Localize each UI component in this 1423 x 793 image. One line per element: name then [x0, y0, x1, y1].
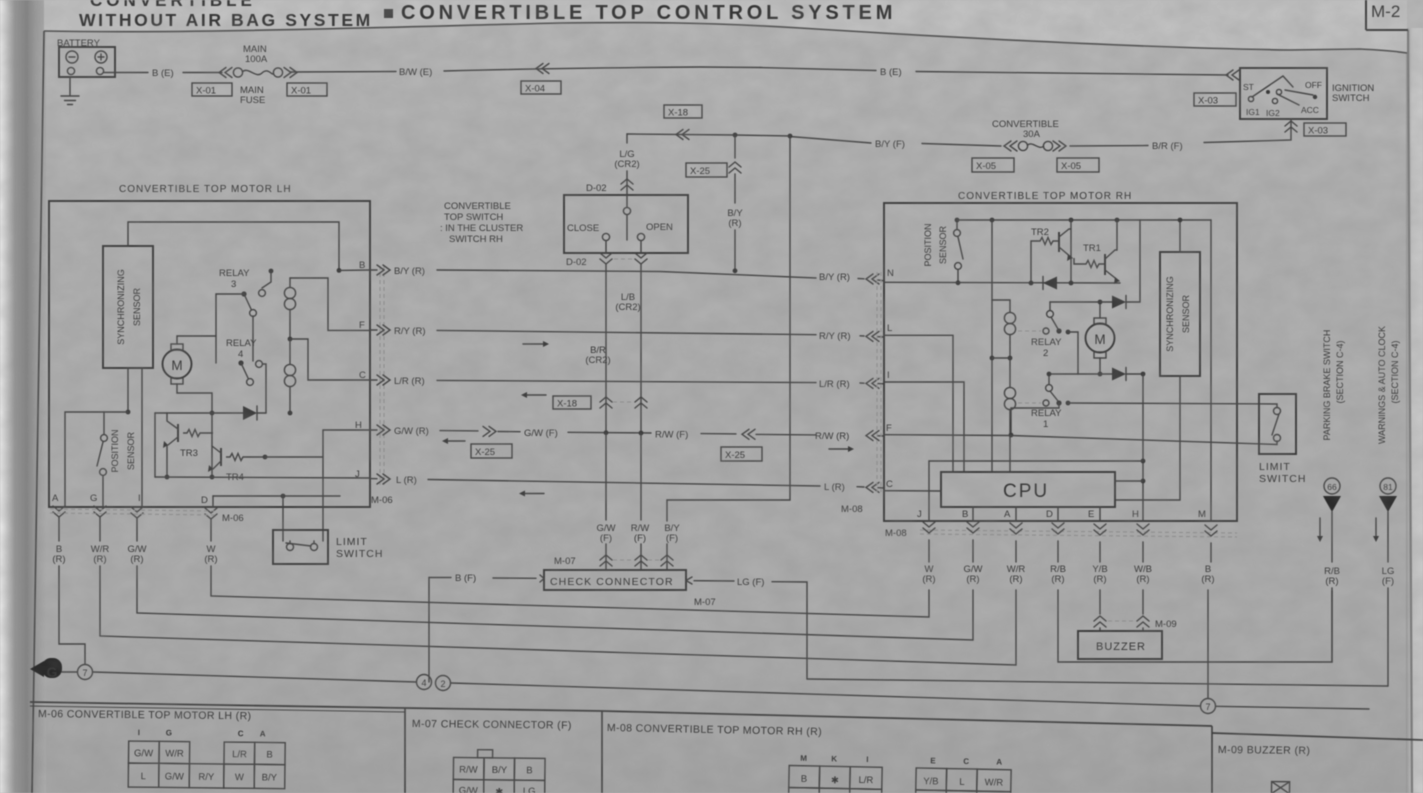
svg-text:E: E	[1088, 509, 1094, 520]
svg-text:G/W: G/W	[134, 748, 153, 759]
svg-text:D-02: D-02	[586, 183, 607, 194]
svg-text:R/W (F): R/W (F)	[655, 430, 688, 441]
wire sensor top bus	[128, 222, 339, 270]
svg-text:B: B	[359, 260, 365, 271]
svg-text:IG1: IG1	[1246, 107, 1260, 117]
svg-text:RELAY: RELAY	[219, 268, 250, 279]
svg-text:C: C	[359, 370, 366, 381]
svg-text:M-06: M-06	[371, 495, 393, 506]
switch box CLOSE / OPEN	[564, 195, 688, 253]
svg-text:7: 7	[1205, 702, 1210, 712]
svg-text:R/W: R/W	[459, 765, 478, 776]
wire B/Y (F)	[922, 144, 1001, 147]
ground bus with circled 7 / 4 / 2	[62, 671, 77, 673]
svg-text:POSITION: POSITION	[110, 429, 120, 472]
svg-text:(R): (R)	[1136, 574, 1149, 585]
svg-text:M-06 CONVERTIBLE TOP MOTOR LH: M-06 CONVERTIBLE TOP MOTOR LH (R)	[38, 708, 252, 722]
svg-text:A: A	[1004, 509, 1011, 520]
connector X-18 label box	[664, 105, 702, 118]
svg-text:SENSOR: SENSOR	[126, 431, 136, 470]
relay 2 switch	[1047, 311, 1054, 318]
svg-text:L: L	[959, 777, 965, 788]
CPU	[941, 472, 1115, 507]
limit switch LH	[273, 530, 328, 564]
wire L/B (CR2) close contact drop	[605, 241, 607, 253]
svg-text:J: J	[917, 509, 922, 520]
svg-text:G: G	[47, 664, 58, 680]
svg-text:(CR2): (CR2)	[585, 355, 610, 366]
svg-text:(R): (R)	[1325, 576, 1338, 587]
svg-text:(R): (R)	[966, 574, 979, 585]
position sensor LH	[103, 412, 105, 434]
emitter bus to J terminal	[155, 477, 370, 478]
svg-text:R/W (R): R/W (R)	[815, 431, 849, 442]
svg-text:G/W (R): G/W (R)	[394, 426, 429, 437]
svg-text:X-01: X-01	[196, 86, 216, 97]
wire G/W (R) bus	[137, 566, 973, 640]
limit switch RH	[1259, 394, 1296, 454]
svg-text:L/R: L/R	[858, 775, 873, 786]
svg-text:W: W	[235, 772, 244, 783]
svg-text:M-09 BUZZER (R): M-09 BUZZER (R)	[1218, 744, 1310, 757]
svg-text:CPU: CPU	[1003, 481, 1049, 502]
svg-text:X-05: X-05	[976, 161, 996, 172]
wire LG (F) out of check connector	[686, 577, 734, 584]
svg-text:R/Y: R/Y	[198, 772, 215, 783]
svg-text:M-08: M-08	[885, 528, 907, 539]
svg-text:(R): (R)	[130, 554, 143, 565]
wire B (E) to ignition switch	[760, 68, 876, 71]
synchronizing sensor LH	[103, 246, 153, 368]
lighter area above page-curl curve, top-right	[44, 0, 1407, 53]
svg-text:X-03: X-03	[1198, 96, 1218, 107]
M-09 section	[1217, 744, 1310, 793]
svg-text:SENSOR: SENSOR	[938, 225, 948, 264]
svg-text:L/R (R): L/R (R)	[394, 376, 425, 387]
wire coil junction to C terminal	[290, 339, 370, 380]
svg-text:G/W: G/W	[459, 786, 478, 793]
connector X-04	[536, 64, 549, 74]
wire B/Y (R) drop from feed line to close wire	[734, 135, 736, 158]
svg-text:TR2: TR2	[1031, 227, 1049, 238]
svg-text:B: B	[526, 765, 532, 776]
svg-text:CONVERTIBLE TOP MOTOR LH: CONVERTIBLE TOP MOTOR LH	[119, 184, 292, 195]
RH top bus	[957, 219, 1211, 221]
svg-text:I: I	[138, 493, 141, 504]
svg-text:I: I	[866, 755, 868, 764]
left diagram border	[32, 31, 44, 793]
svg-text:I: I	[138, 728, 140, 737]
svg-text:TR3: TR3	[180, 448, 198, 459]
svg-text:(F): (F)	[600, 533, 612, 544]
direction arrow left (L row)	[525, 493, 544, 495]
svg-text:(SECTION C-4): (SECTION C-4)	[1335, 340, 1345, 403]
svg-text:CONVERTIBLE: CONVERTIBLE	[444, 201, 511, 212]
svg-text:CLOSE: CLOSE	[567, 223, 599, 234]
svg-text:SWITCH: SWITCH	[1259, 473, 1306, 485]
svg-text:SWITCH: SWITCH	[1332, 93, 1370, 104]
svg-text:(SECTION C-4): (SECTION C-4)	[1390, 340, 1400, 403]
svg-text:WITHOUT AIR BAG SYSTEM: WITHOUT AIR BAG SYSTEM	[79, 10, 373, 30]
svg-text:L/R (R): L/R (R)	[819, 379, 850, 390]
connector X-25 left	[471, 444, 512, 458]
svg-text:LIMIT: LIMIT	[336, 536, 368, 548]
svg-text:J: J	[355, 469, 360, 480]
svg-text:(CR2): (CR2)	[614, 159, 639, 170]
wire G/W (R) / G/W (F) / R/W (F) / R/W (R) row	[377, 425, 390, 435]
ground symbol	[30, 658, 62, 680]
svg-text:M: M	[1094, 332, 1105, 347]
svg-text:(R): (R)	[1093, 574, 1106, 585]
wire R/Y (R) row	[377, 325, 390, 335]
svg-text:X-04: X-04	[525, 84, 545, 95]
svg-text:B (E): B (E)	[152, 68, 174, 79]
wire relay1 contact to limit switch	[1068, 403, 1277, 407]
svg-text:X-18: X-18	[668, 108, 688, 119]
synchronizing sensor RH	[1160, 252, 1200, 376]
wire LG (F) long run	[807, 679, 1388, 686]
wire B (E) battery to main fuse	[104, 72, 148, 74]
svg-text:R/Y (R): R/Y (R)	[819, 331, 851, 342]
svg-text:B: B	[962, 509, 968, 520]
svg-text:(F): (F)	[634, 533, 646, 544]
svg-text:SYNCHRONIZING: SYNCHRONIZING	[116, 269, 126, 345]
wire W (R) bus	[211, 566, 929, 617]
ground (battery)	[61, 77, 79, 105]
wire L (R) row	[377, 474, 390, 484]
svg-text:M: M	[171, 358, 182, 373]
svg-text:H: H	[355, 420, 362, 431]
svg-text:SENSOR: SENSOR	[132, 287, 142, 326]
connector X-18 crossing on drops	[553, 396, 591, 409]
svg-text:LG (F): LG (F)	[737, 577, 764, 588]
svg-text:M-2: M-2	[1371, 2, 1400, 21]
svg-text:M-07: M-07	[554, 556, 576, 567]
svg-text:W/R: W/R	[165, 748, 184, 759]
connector X-03 (top)	[1194, 93, 1236, 106]
svg-text:A: A	[996, 757, 1002, 766]
svg-text:W/R: W/R	[985, 777, 1004, 788]
wire W/R (R) bus	[100, 566, 1016, 665]
svg-text:(R): (R)	[922, 574, 935, 585]
wire N (B/Y) line	[884, 281, 1120, 284]
wire A-terminal leg	[65, 412, 128, 507]
CPU bottom stubs	[973, 507, 1100, 521]
section divider line	[30, 702, 1212, 726]
transistor TR4	[220, 448, 222, 466]
svg-text:SWITCH: SWITCH	[336, 548, 383, 560]
wire L (R/Y)	[884, 335, 953, 472]
svg-text:G: G	[166, 728, 172, 737]
svg-text:M-07: M-07	[694, 597, 716, 608]
svg-text:OFF: OFF	[1305, 80, 1322, 90]
svg-text:CONVERTIBLE TOP MOTOR RH: CONVERTIBLE TOP MOTOR RH	[958, 191, 1132, 202]
main fuse MAIN 100A	[192, 44, 327, 106]
svg-text:B/Y (R): B/Y (R)	[394, 266, 425, 277]
wire C (L) into CPU	[884, 490, 941, 492]
svg-text:LG: LG	[523, 786, 536, 793]
svg-text:B/Y (F): B/Y (F)	[875, 139, 905, 150]
svg-text:G/W (F): G/W (F)	[524, 428, 558, 439]
svg-text:ACC: ACC	[1301, 105, 1319, 115]
wire B/Y (F) drop to check connector	[667, 136, 790, 521]
svg-text:A: A	[260, 729, 266, 738]
svg-text:B/R (F): B/R (F)	[1152, 141, 1183, 152]
svg-text:X-25: X-25	[475, 447, 495, 458]
svg-text:F: F	[886, 423, 892, 434]
wire H corner	[323, 430, 370, 541]
CPU right-side links	[1142, 374, 1144, 521]
svg-text:CONVERTIBLE: CONVERTIBLE	[90, 0, 256, 10]
page curl / top border wavy line	[44, 23, 1407, 53]
wire L/R (R) row	[377, 375, 390, 385]
svg-text:(R): (R)	[1051, 574, 1064, 585]
svg-text:FUSE: FUSE	[240, 95, 265, 106]
convertible 30A fuse	[972, 119, 1099, 172]
svg-text:B (E): B (E)	[880, 67, 902, 78]
svg-text:G: G	[90, 493, 97, 504]
diode RH (pointing left)	[1043, 277, 1057, 290]
svg-text:E: E	[930, 756, 936, 765]
right page edge	[1406, 28, 1423, 793]
svg-text:C: C	[238, 729, 244, 738]
svg-text:81: 81	[1383, 482, 1393, 492]
buzzer connector M-09	[1094, 616, 1106, 627]
svg-text:LIMIT: LIMIT	[1259, 461, 1291, 473]
svg-text:X-25: X-25	[690, 166, 710, 177]
svg-text:(R): (R)	[204, 554, 217, 565]
svg-text:66: 66	[1327, 482, 1337, 492]
svg-text:A: A	[52, 493, 59, 504]
wire I (L/R)	[884, 382, 964, 472]
wire sensor right leg to I terminal	[141, 368, 143, 507]
wire F line	[884, 435, 1277, 445]
svg-text:B/Y: B/Y	[262, 772, 278, 783]
svg-text:X-01: X-01	[291, 86, 311, 97]
svg-text:CONVERTIBLE TOP CONTROL SYSTEM: CONVERTIBLE TOP CONTROL SYSTEM	[401, 2, 896, 24]
node on feed line	[788, 134, 793, 139]
diode LH	[155, 412, 243, 414]
svg-text:L/R: L/R	[232, 749, 247, 760]
svg-text:X-18: X-18	[557, 399, 577, 410]
M-08 connector table	[606, 722, 1012, 793]
svg-text:RELAY: RELAY	[1031, 337, 1062, 348]
svg-text:M-07 CHECK CONNECTOR (F): M-07 CHECK CONNECTOR (F)	[412, 718, 572, 732]
left page edge bands	[0, 0, 46, 793]
M-07 connector table	[411, 718, 572, 793]
wire B/Y (R) row	[377, 265, 390, 275]
svg-text:N: N	[887, 268, 894, 279]
svg-text:Y/B: Y/B	[923, 776, 939, 787]
svg-text:I: I	[887, 370, 890, 381]
svg-text:(R): (R)	[1009, 574, 1022, 585]
svg-text:D: D	[201, 495, 208, 506]
svg-text:B: B	[266, 749, 272, 760]
svg-text:SYNCHRONIZING: SYNCHRONIZING	[1165, 276, 1175, 352]
svg-text:4: 4	[421, 678, 426, 688]
direction arrow left (L/R row)	[527, 394, 546, 396]
svg-text:(F): (F)	[666, 533, 678, 544]
ignition switch lower lead + X-03	[1204, 119, 1291, 143]
connector M-06 dashed edge	[379, 266, 381, 485]
svg-text:M: M	[800, 754, 807, 763]
svg-text:B/Y (R): B/Y (R)	[819, 272, 850, 283]
svg-text:C: C	[963, 757, 969, 766]
svg-text:IG2: IG2	[1266, 108, 1280, 118]
relay 1 switch	[1046, 385, 1053, 392]
svg-text:3: 3	[231, 279, 236, 290]
svg-text:TR1: TR1	[1083, 243, 1101, 254]
connector M-08 dashed edge	[876, 272, 878, 492]
svg-text:100A: 100A	[245, 54, 268, 65]
svg-text:M-06: M-06	[222, 513, 244, 524]
svg-text:R/Y (R): R/Y (R)	[394, 326, 426, 337]
transistor TR3	[177, 424, 179, 442]
svg-text:ST: ST	[1243, 82, 1254, 92]
svg-text:X-25: X-25	[725, 450, 745, 461]
svg-text:X-03: X-03	[1308, 126, 1328, 137]
direction arrow right (R/Y row)	[523, 343, 543, 345]
wire sensor bottom to junction	[127, 368, 129, 412]
svg-text:4: 4	[238, 349, 243, 360]
wire L/G (CR2) drop from feed line	[626, 134, 628, 143]
wire D terminal internal	[213, 495, 340, 497]
svg-text:(F): (F)	[1382, 576, 1394, 587]
svg-text:SENSOR: SENSOR	[1181, 294, 1191, 333]
svg-text:B: B	[801, 774, 808, 785]
svg-text:X-05: X-05	[1061, 161, 1081, 172]
svg-text:✱: ✱	[495, 787, 503, 793]
ignition switch	[1240, 68, 1327, 119]
svg-text:G/W: G/W	[165, 771, 184, 782]
M-2 page label box	[1365, 0, 1367, 30]
svg-text:B (F): B (F)	[455, 573, 476, 584]
relay 2 coil feed	[991, 220, 993, 472]
connector X-25 right	[721, 447, 762, 461]
svg-text:L: L	[141, 771, 146, 782]
svg-text:K: K	[831, 754, 837, 763]
svg-text:CHECK CONNECTOR: CHECK CONNECTOR	[550, 576, 674, 588]
svg-text:RELAY: RELAY	[226, 338, 257, 349]
svg-text:(R): (R)	[1201, 574, 1214, 585]
wire B (R) to ground point	[59, 566, 85, 664]
svg-text:D: D	[1046, 509, 1053, 520]
relay 1 coil	[1009, 358, 1011, 387]
wire B/R (CR2) open contact drop	[640, 241, 642, 253]
motor LH	[163, 350, 192, 379]
relay 4 coil	[284, 364, 295, 386]
svg-text:H: H	[1132, 509, 1139, 520]
svg-text:2: 2	[440, 679, 445, 689]
svg-text:(R): (R)	[52, 554, 65, 565]
svg-text:7: 7	[82, 668, 87, 678]
svg-text:✱: ✱	[831, 775, 839, 786]
svg-text:C: C	[886, 479, 893, 490]
svg-text:(CR2): (CR2)	[615, 302, 640, 313]
svg-text:30A: 30A	[1023, 129, 1041, 140]
svg-text:F: F	[359, 320, 365, 331]
wire B (F) drop	[428, 578, 430, 683]
svg-text:TOP SWITCH: TOP SWITCH	[444, 212, 503, 223]
svg-text:B/W (E): B/W (E)	[399, 67, 432, 78]
motor RH	[1086, 324, 1115, 353]
svg-text:B/Y: B/Y	[492, 765, 508, 776]
wire B/W (E)	[290, 71, 396, 74]
svg-text:(R): (R)	[728, 218, 741, 229]
svg-text:RELAY: RELAY	[1031, 408, 1062, 419]
svg-text:L: L	[887, 323, 892, 334]
svg-text:OPEN: OPEN	[646, 222, 673, 233]
svg-text:M: M	[1198, 509, 1206, 520]
check connector	[544, 570, 686, 590]
battery	[57, 38, 115, 77]
svg-text:WARNINGS & AUTO CLOCK: WARNINGS & AUTO CLOCK	[1377, 326, 1387, 444]
wires G/W(F), R/W(F), B/Y(F) down to check connector	[605, 433, 607, 520]
svg-text:L (R): L (R)	[824, 482, 845, 493]
svg-text:: IN THE CLUSTER: : IN THE CLUSTER	[440, 223, 523, 234]
svg-text:D-02: D-02	[566, 257, 587, 268]
M-06 connector table	[37, 708, 285, 789]
svg-text:POSITION: POSITION	[923, 223, 933, 266]
relay 3 coil	[284, 287, 295, 309]
svg-text:2: 2	[1043, 348, 1048, 359]
svg-text:M-09: M-09	[1155, 619, 1177, 630]
svg-text:(R): (R)	[93, 554, 106, 565]
title: CONVERTIBLE TOP CONTROL SYSTEM	[384, 9, 393, 18]
svg-text:L (R): L (R)	[396, 475, 417, 486]
svg-text:BUZZER: BUZZER	[1096, 641, 1146, 653]
svg-text:SWITCH RH: SWITCH RH	[449, 234, 503, 245]
wire M leg	[1210, 220, 1212, 521]
svg-text:1: 1	[1043, 419, 1048, 430]
buzzer	[1078, 631, 1162, 659]
svg-text:PARKING BRAKE SWITCH: PARKING BRAKE SWITCH	[1322, 330, 1332, 441]
svg-text:M-08: M-08	[841, 504, 863, 515]
